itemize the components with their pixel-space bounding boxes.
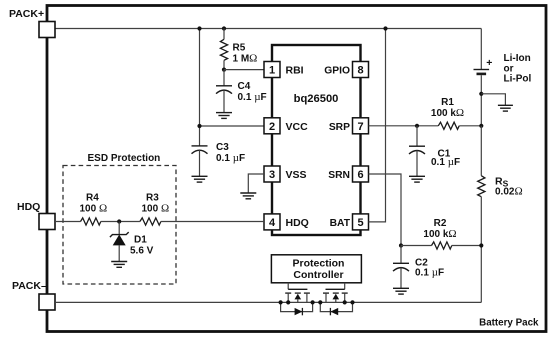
- node PACK- terminal pad: [12, 280, 55, 310]
- wire gate lead Q2: [344, 283, 346, 290]
- junction top rail / BAT riser: [383, 26, 387, 30]
- svg-text:100 kΩ: 100 kΩ: [423, 228, 456, 240]
- svg-text:Controller: Controller: [293, 269, 343, 281]
- protection controller box: [271, 255, 361, 283]
- ground below D1: [111, 262, 127, 268]
- junction top rail / C3 branch: [197, 26, 201, 30]
- wire VSS pin 3 to ground: [248, 174, 264, 193]
- ground at battery: [498, 105, 513, 111]
- label Battery Pack: [479, 318, 539, 329]
- svg-text:C4: C4: [238, 81, 251, 92]
- svg-text:R2: R2: [434, 218, 447, 229]
- pin 3 VSS: [264, 166, 307, 182]
- svg-text:GPIO: GPIO: [324, 65, 350, 76]
- svg-text:4: 4: [269, 217, 276, 229]
- svg-text:PACK–: PACK–: [12, 280, 47, 292]
- svg-text:100 Ω: 100 Ω: [80, 203, 108, 215]
- junction SRP / battery line: [479, 124, 483, 128]
- svg-text:VCC: VCC: [286, 121, 309, 133]
- wire BAT pin 5 riser to top rail: [369, 29, 386, 222]
- capacitor C3: [192, 142, 246, 176]
- capacitor C4: [216, 70, 267, 113]
- svg-text:0.02Ω: 0.02Ω: [495, 186, 523, 198]
- resistor R4: [80, 193, 108, 226]
- body diode Q2: [320, 302, 352, 315]
- svg-text:100 Ω: 100 Ω: [142, 203, 170, 215]
- svg-text:SRP: SRP: [329, 122, 350, 133]
- pin 8 GPIO: [324, 62, 368, 78]
- svg-text:0.1 µF: 0.1 µF: [238, 91, 267, 103]
- node HDQ terminal pad: [17, 201, 55, 230]
- svg-text:2: 2: [269, 121, 275, 133]
- ground below C2: [393, 288, 409, 294]
- svg-text:C3: C3: [216, 142, 229, 153]
- svg-text:0.1 µF: 0.1 µF: [415, 267, 444, 279]
- transistor Q2 (charge FET): [323, 289, 348, 302]
- ground below C1: [409, 176, 425, 182]
- svg-text:Li-Pol: Li-Pol: [504, 74, 532, 85]
- svg-text:+: +: [486, 57, 492, 69]
- wire RBI to pin 1: [224, 69, 264, 71]
- pin 6 SRN: [328, 166, 368, 182]
- svg-text:0.1 µF: 0.1 µF: [431, 156, 460, 168]
- wire R4 to R3: [101, 221, 140, 223]
- svg-text:PACK+: PACK+: [9, 8, 44, 20]
- svg-text:6: 6: [357, 169, 363, 181]
- wire HDQ pad to R4: [55, 221, 81, 223]
- IC U1 bq26500 body: [272, 45, 361, 235]
- wire PACK+ rail (top): [55, 28, 481, 30]
- pin 7 SRP: [329, 118, 369, 134]
- svg-text:1: 1: [269, 65, 275, 77]
- resistor R2: [401, 218, 481, 249]
- pin 4 HDQ: [264, 214, 309, 230]
- wire C3 branch vertical: [199, 29, 201, 146]
- svg-text:R1: R1: [441, 97, 454, 108]
- wire battery line to RS: [480, 126, 482, 176]
- capacitor C1: [409, 126, 460, 177]
- svg-text:R3: R3: [146, 193, 159, 204]
- resistor R5: [220, 29, 257, 70]
- wire SRN pin 6 branch: [369, 174, 402, 246]
- wire gate lead Q1: [287, 283, 289, 290]
- body diode Q1: [281, 302, 313, 315]
- ESD protection dashed box: [63, 153, 176, 284]
- svg-text:8: 8: [357, 65, 363, 77]
- svg-text:BAT: BAT: [330, 218, 351, 229]
- ground at VSS: [240, 193, 256, 199]
- svg-text:3: 3: [269, 169, 275, 181]
- junction battery ground tee: [479, 92, 483, 96]
- svg-text:5.6 V: 5.6 V: [130, 246, 154, 257]
- svg-text:SRN: SRN: [328, 170, 350, 181]
- resistor R1: [431, 97, 481, 129]
- wire R3 to pin 4: [161, 221, 264, 223]
- junction SRP / C1: [415, 124, 419, 128]
- wire battery negative to SRP node: [480, 75, 482, 126]
- wire PACK- rail (bottom): [55, 301, 481, 303]
- svg-text:1 MΩ: 1 MΩ: [233, 53, 258, 65]
- svg-text:R5: R5: [233, 43, 246, 54]
- svg-text:ESD Protection: ESD Protection: [88, 153, 161, 164]
- wire battery positive drop: [480, 29, 482, 70]
- wire VCC to pin 2: [200, 125, 265, 127]
- svg-text:Battery Pack: Battery Pack: [479, 318, 539, 329]
- svg-text:Li-Ion: Li-Ion: [504, 53, 531, 64]
- svg-text:0.1 µF: 0.1 µF: [216, 152, 245, 164]
- pin 1 RBI: [264, 62, 304, 78]
- junction SRN / R2 / C2: [399, 243, 403, 247]
- junction HDQ / D1: [117, 219, 121, 223]
- capacitor C2: [393, 246, 444, 289]
- junction top rail / R5: [222, 26, 226, 30]
- wire SRP pin 7 to battery line: [369, 125, 439, 127]
- junction R2 / battery line: [479, 243, 483, 247]
- svg-text:7: 7: [357, 121, 363, 133]
- svg-text:5: 5: [357, 217, 363, 229]
- junction bottom rail dots: [279, 300, 355, 304]
- pin 5 BAT: [330, 214, 369, 230]
- wire to system ground: [481, 94, 505, 105]
- svg-text:VSS: VSS: [286, 169, 307, 181]
- ground below C4: [216, 113, 232, 119]
- svg-text:R4: R4: [86, 193, 99, 204]
- junction VCC tee: [197, 124, 201, 128]
- resistor RS sense: [478, 176, 523, 198]
- svg-text:100 kΩ: 100 kΩ: [431, 107, 464, 119]
- svg-text:D1: D1: [134, 235, 147, 246]
- svg-text:bq26500: bq26500: [294, 93, 339, 105]
- battery BT1 Li-Ion: [474, 53, 532, 85]
- svg-text:RBI: RBI: [286, 64, 304, 76]
- wire RS bottom to pack- rail: [480, 197, 482, 303]
- pin 2 VCC: [264, 118, 308, 134]
- svg-text:Protection: Protection: [293, 258, 345, 270]
- resistor R3: [140, 193, 169, 226]
- svg-text:HDQ: HDQ: [17, 201, 40, 213]
- transistor Q1 (discharge FET): [285, 289, 310, 302]
- zener diode D1: [110, 222, 154, 262]
- ground below C3: [192, 176, 208, 182]
- node PACK+ terminal pad: [9, 8, 55, 38]
- junction RBI tee: [222, 68, 226, 72]
- svg-text:HDQ: HDQ: [286, 217, 309, 229]
